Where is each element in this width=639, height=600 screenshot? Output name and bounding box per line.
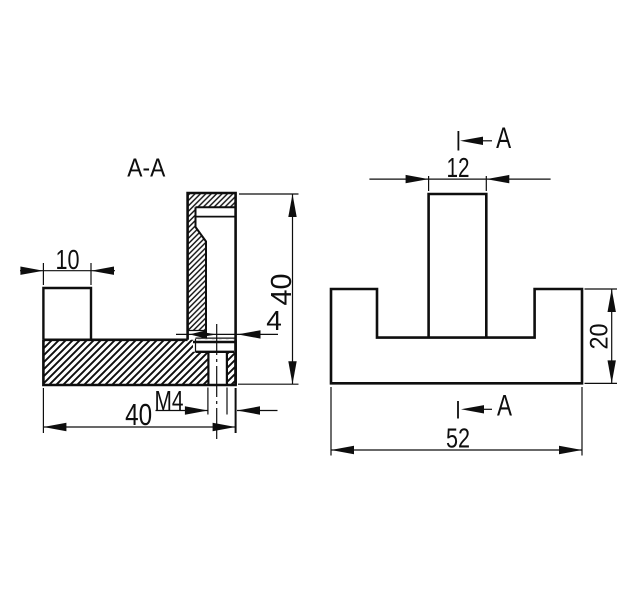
cap bottom line bbox=[196, 206, 236, 208]
svg-text:10: 10 bbox=[56, 244, 80, 275]
slot top line bbox=[196, 216, 236, 218]
hatched section: base bar bbox=[43, 340, 235, 385]
dimension 12: extension lines bbox=[429, 176, 487, 191]
dimension M4: extension lines bbox=[208, 388, 227, 415]
section plane bottom: tick bbox=[457, 401, 459, 419]
dimension 40 bottom: left arrow bbox=[43, 423, 66, 431]
section plane top: arrow bbox=[460, 137, 483, 145]
dimension 12: right arrow bbox=[486, 175, 509, 183]
dimension 40 vertical: bottom arrow bbox=[288, 361, 296, 384]
svg-text:M4: M4 bbox=[155, 385, 184, 416]
dimension 10: left arrow bbox=[20, 267, 43, 275]
threaded hole M4 right edge bbox=[226, 352, 228, 385]
dimension 4: dimension line bbox=[176, 333, 278, 335]
dimension 10: dimension line bbox=[20, 270, 115, 272]
dimension 40 bottom: dimension line bbox=[43, 426, 235, 428]
dimension 52: extension lines bbox=[331, 387, 582, 456]
column outline bbox=[429, 194, 487, 338]
collar left edge bbox=[195, 339, 197, 352]
hatched section: column cap and wall bbox=[188, 193, 236, 331]
boss outline (10 deep) bbox=[43, 288, 91, 340]
svg-text:A: A bbox=[497, 390, 512, 423]
collar top thin line bbox=[196, 337, 236, 339]
svg-text:A: A bbox=[496, 122, 511, 155]
dimension 40 vertical: dimension line bbox=[292, 194, 294, 384]
wall bottom line bbox=[188, 330, 206, 332]
collar top thick line bbox=[193, 341, 236, 344]
section plane bottom: arrow bbox=[461, 405, 484, 413]
dimension M4: right line with arrow bbox=[237, 410, 278, 412]
dimension 20: dimension line bbox=[611, 289, 613, 383]
dimension 4: right arrow bbox=[238, 330, 261, 338]
dimension 12: left arrow bbox=[406, 175, 429, 183]
dimension 52: right arrow bbox=[559, 446, 582, 454]
wall inner edge bbox=[196, 207, 207, 330]
dimension M4: left line with arrow bbox=[156, 410, 208, 412]
dimension 20: top arrow bbox=[608, 289, 616, 312]
threaded hole M4 left edge bbox=[207, 352, 209, 385]
dimension 40 bottom: extension lines bbox=[42, 388, 44, 433]
dimension 20: extension lines bbox=[585, 289, 618, 383]
dimension 4: left arrow bbox=[190, 330, 208, 339]
dimension 10: right arrow bbox=[91, 267, 114, 275]
dimension 10: extension lines bbox=[43, 263, 91, 285]
svg-text:20: 20 bbox=[586, 324, 614, 350]
dimension 52: dimension line bbox=[331, 449, 582, 451]
dimension 40 bottom: right arrow bbox=[213, 423, 236, 431]
section plane top: tick bbox=[457, 131, 459, 151]
base outline bbox=[43, 340, 235, 385]
svg-text:40: 40 bbox=[125, 398, 152, 432]
part outline bbox=[331, 289, 582, 383]
column outline bbox=[188, 193, 236, 385]
dimension 40 vertical: extension lines bbox=[238, 194, 299, 384]
svg-text:12: 12 bbox=[447, 152, 470, 183]
dimension 12: dimension line bbox=[369, 178, 550, 180]
svg-text:40: 40 bbox=[266, 274, 298, 306]
dimension 20: bottom arrow bbox=[608, 360, 616, 383]
dimension 40 vertical: top arrow bbox=[288, 194, 296, 217]
svg-text:4: 4 bbox=[266, 305, 282, 336]
dimension 52: left arrow bbox=[331, 446, 354, 454]
hole centerline (dash-dot) bbox=[216, 324, 218, 441]
collar bottom line (hole mouth) bbox=[196, 351, 235, 353]
svg-text:A-A: A-A bbox=[127, 155, 165, 183]
svg-text:52: 52 bbox=[446, 423, 470, 454]
